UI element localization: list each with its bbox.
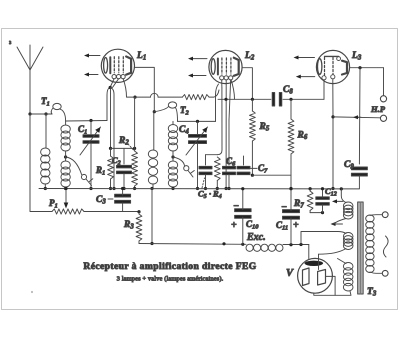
label V [286, 268, 294, 279]
capacitor C4 [189, 135, 207, 144]
wire grid riser L1 [107, 88, 110, 121]
potentiometer P1 [52, 209, 84, 214]
tube L3 [316, 50, 349, 83]
wire C1 bottom lead [89, 143, 92, 190]
wire S1 bottom lead [334, 219, 347, 225]
resistor coupling horizontal [182, 95, 209, 100]
label C2 [112, 155, 121, 167]
resistor R5 [250, 99, 256, 175]
wire V plate right [326, 276, 336, 295]
wire HT line stage2 [218, 98, 271, 101]
label L2 [244, 51, 255, 62]
switch S1 [81, 174, 92, 185]
wire C6 lead [228, 120, 230, 165]
label L1 [136, 51, 146, 62]
capacitor C1 [83, 135, 99, 144]
svg-text:Exc.: Exc. [246, 232, 266, 243]
svg-text:Récepteur à amplification dire: Récepteur à amplification directe FEG [83, 261, 256, 272]
capacitor C6 [223, 166, 236, 174]
label T2 [180, 105, 190, 117]
tube L2 [209, 50, 242, 83]
label C3 [96, 195, 113, 206]
wire V bottom [314, 291, 351, 295]
wire HP minus lead [333, 115, 380, 119]
wire C9 to bus [341, 176, 359, 189]
capacitor C5 [199, 166, 212, 174]
arrow P1 wiper [64, 187, 69, 209]
wire L1 pin b [112, 88, 116, 190]
label C11 polarity [281, 202, 299, 231]
wire S3 top lead [338, 259, 347, 264]
antenna [17, 45, 43, 114]
wire to L2 cathode [209, 90, 219, 97]
terminal HP plus [380, 96, 386, 102]
wire C9 drop [358, 68, 361, 164]
label C5 R4 [198, 178, 222, 200]
terminal HP minus [380, 115, 386, 121]
wire S2 bottom lead [319, 249, 347, 255]
wire tap to switch [66, 157, 82, 175]
label C10 polarity [231, 201, 239, 231]
svg-text:·: · [209, 189, 211, 199]
node T2 junction [153, 110, 156, 113]
capacitor C11 electrolytic [283, 210, 300, 220]
svg-text:H.P: H.P [370, 104, 386, 114]
wire C5 node [206, 154, 218, 156]
label HP [370, 104, 386, 114]
wire secondary bottom lead [370, 272, 382, 273]
resistor R2 [132, 97, 138, 190]
wire decoupling link [252, 174, 291, 176]
label T1 [41, 96, 50, 108]
wire left rail [30, 114, 52, 212]
wire tap link [65, 151, 67, 161]
wire grid bus stage2 [178, 120, 216, 122]
label L3 [351, 51, 362, 62]
wire C11 leads [289, 187, 292, 245]
winding T3 primary S1 [343, 202, 353, 219]
svg-text:3 lampes + valve (lampes améri: 3 lampes + valve (lampes américaines). [117, 276, 224, 283]
arrow heater tap 2 [331, 222, 343, 226]
wire secondary top lead [370, 214, 382, 217]
wire coil A feed [45, 114, 47, 148]
wire L2 anode [242, 68, 252, 100]
wire L1 pin stubs [111, 79, 119, 88]
wire L3 anode [350, 66, 384, 69]
coil tuned secondary2 lower [168, 161, 177, 187]
wire L1 screen pin [123, 79, 133, 97]
wire C12 leads [321, 187, 324, 213]
wire C1 top lead [90, 121, 92, 135]
node antenna junction [28, 112, 47, 115]
capacitor C10 electrolytic [235, 209, 252, 219]
label C7 [251, 163, 268, 175]
svg-text:−: − [281, 202, 287, 213]
page number mark [9, 40, 12, 45]
label R1 [95, 165, 105, 177]
resistor R4 [214, 157, 220, 190]
wire L2 pin fil [225, 79, 228, 190]
wire L2 pin grid leak [217, 88, 222, 155]
wire screen feed [135, 93, 182, 97]
label R5 [259, 122, 270, 133]
wire P1 to C3 [84, 211, 123, 213]
svg-text:V: V [286, 268, 294, 279]
node secondary tap [64, 155, 67, 158]
wire L1 pin a [109, 88, 112, 150]
wire C4 bottom lead [196, 143, 199, 190]
node bus right [340, 187, 343, 190]
resistor R7 [307, 187, 313, 213]
label R6 [297, 131, 308, 142]
label Exc [246, 232, 266, 243]
node R5 bottom [251, 174, 254, 177]
svg-text:+: + [231, 220, 237, 231]
wire bus to T3 [341, 189, 346, 203]
wire HT branch to T3 [301, 232, 346, 245]
capacitor C7 [237, 166, 250, 174]
resistor R6 [288, 99, 294, 190]
wire secondary top link [172, 121, 174, 124]
wire lower bus [139, 242, 246, 245]
wire C2 top lead [123, 148, 125, 164]
capacitor C8 [272, 93, 282, 107]
winding T3 secondary [366, 215, 374, 273]
coil tuned secondary upper [61, 125, 70, 151]
node L1 pins junction [109, 86, 112, 89]
wire lower bus right [283, 243, 309, 246]
stray speck [31, 291, 33, 293]
arrow C4 variable [186, 127, 208, 155]
label R7 [293, 199, 304, 210]
wire L3 grid riser [323, 80, 325, 99]
svg-text:−: − [233, 201, 239, 212]
capacitor C2 [117, 165, 132, 173]
coil interstage primary [148, 150, 157, 184]
wire C2 bottom lead [122, 173, 125, 190]
label P1 [49, 198, 58, 210]
wire C8 out [283, 98, 324, 101]
wire left rail 2 [150, 189, 153, 246]
node R2 top [133, 96, 136, 99]
label C4 [179, 125, 189, 136]
wire V top lead [308, 245, 310, 259]
terminal T3 a [382, 212, 388, 218]
wire R7 to C12 [310, 211, 324, 214]
label C8 [283, 85, 293, 96]
resistor R3 [136, 212, 142, 244]
wire C10 leads [241, 187, 244, 244]
label R3 [123, 220, 134, 231]
wire tap link 2 [172, 151, 174, 161]
wire HP top lead [383, 68, 385, 96]
wire coil B to bus [64, 187, 67, 190]
wire grid leak link [111, 147, 137, 150]
jack T1 [51, 103, 65, 121]
wire C6 top lead [229, 79, 231, 120]
label R2 [118, 136, 134, 150]
wire main bus [39, 188, 341, 190]
label C12 [325, 186, 337, 198]
label C11 [276, 220, 288, 232]
coil antenna primary [41, 148, 50, 184]
arrows at L2 [188, 57, 207, 78]
terminal T3 b [382, 270, 388, 276]
capacitor C9 [351, 167, 367, 176]
label T3 [367, 287, 377, 298]
arrows at L1 [84, 54, 100, 77]
coil Exc field winding [241, 243, 283, 252]
wire tap to switch 2 [173, 157, 185, 166]
wire C3 to R3 [123, 210, 141, 213]
coil tuned secondary lower [61, 161, 70, 187]
core T3 [358, 202, 364, 294]
wire L1 anode [134, 67, 154, 111]
wire grid riser L2 [216, 79, 222, 122]
wire L2 HT pickup [231, 79, 235, 100]
node C1 top [89, 119, 92, 122]
label C9 [344, 160, 354, 171]
wire T2 primary feed [153, 112, 155, 150]
caption title [83, 261, 256, 272]
caption subtitle [117, 276, 224, 283]
coil tuned secondary2 upper [168, 125, 177, 152]
wire C7 top lead [243, 156, 245, 165]
wire V plate feed [318, 254, 320, 269]
arrow heater tap 1 [332, 199, 343, 203]
capacitor C3 [115, 194, 131, 203]
label C1 [78, 124, 87, 136]
wire C4 top lead [197, 121, 199, 134]
label C10 [246, 219, 259, 231]
node secondary2 tap [171, 155, 174, 158]
winding T3 primary S3 [343, 263, 353, 292]
wire C5 top lead [205, 155, 207, 165]
wire C3 leads [121, 187, 124, 212]
arrow C1 variable [80, 127, 101, 155]
jack T2 [154, 102, 177, 122]
node C4 top [196, 120, 199, 123]
wire coil C to bus [150, 184, 153, 190]
wire coil A to bus [44, 184, 47, 190]
mains squiggle [383, 236, 388, 257]
wire L3 cathode drop [331, 80, 334, 190]
winding T3 primary S2 [343, 233, 353, 250]
svg-text:+: + [293, 220, 299, 231]
capacitor C12 [316, 197, 330, 205]
tube L1 [101, 49, 134, 82]
resistor R1 [108, 148, 114, 190]
arrows at L3 [294, 56, 315, 79]
label C6 [226, 156, 236, 168]
wire C5 bottom lead [204, 174, 207, 190]
switch S2 [184, 166, 195, 177]
wire antenna to T1 [30, 113, 52, 115]
wire grid bus stage1 [66, 121, 107, 126]
wire C6 bottom lead [227, 174, 230, 190]
wire coil D to bus [171, 187, 174, 190]
rectifier tube V [298, 258, 333, 293]
